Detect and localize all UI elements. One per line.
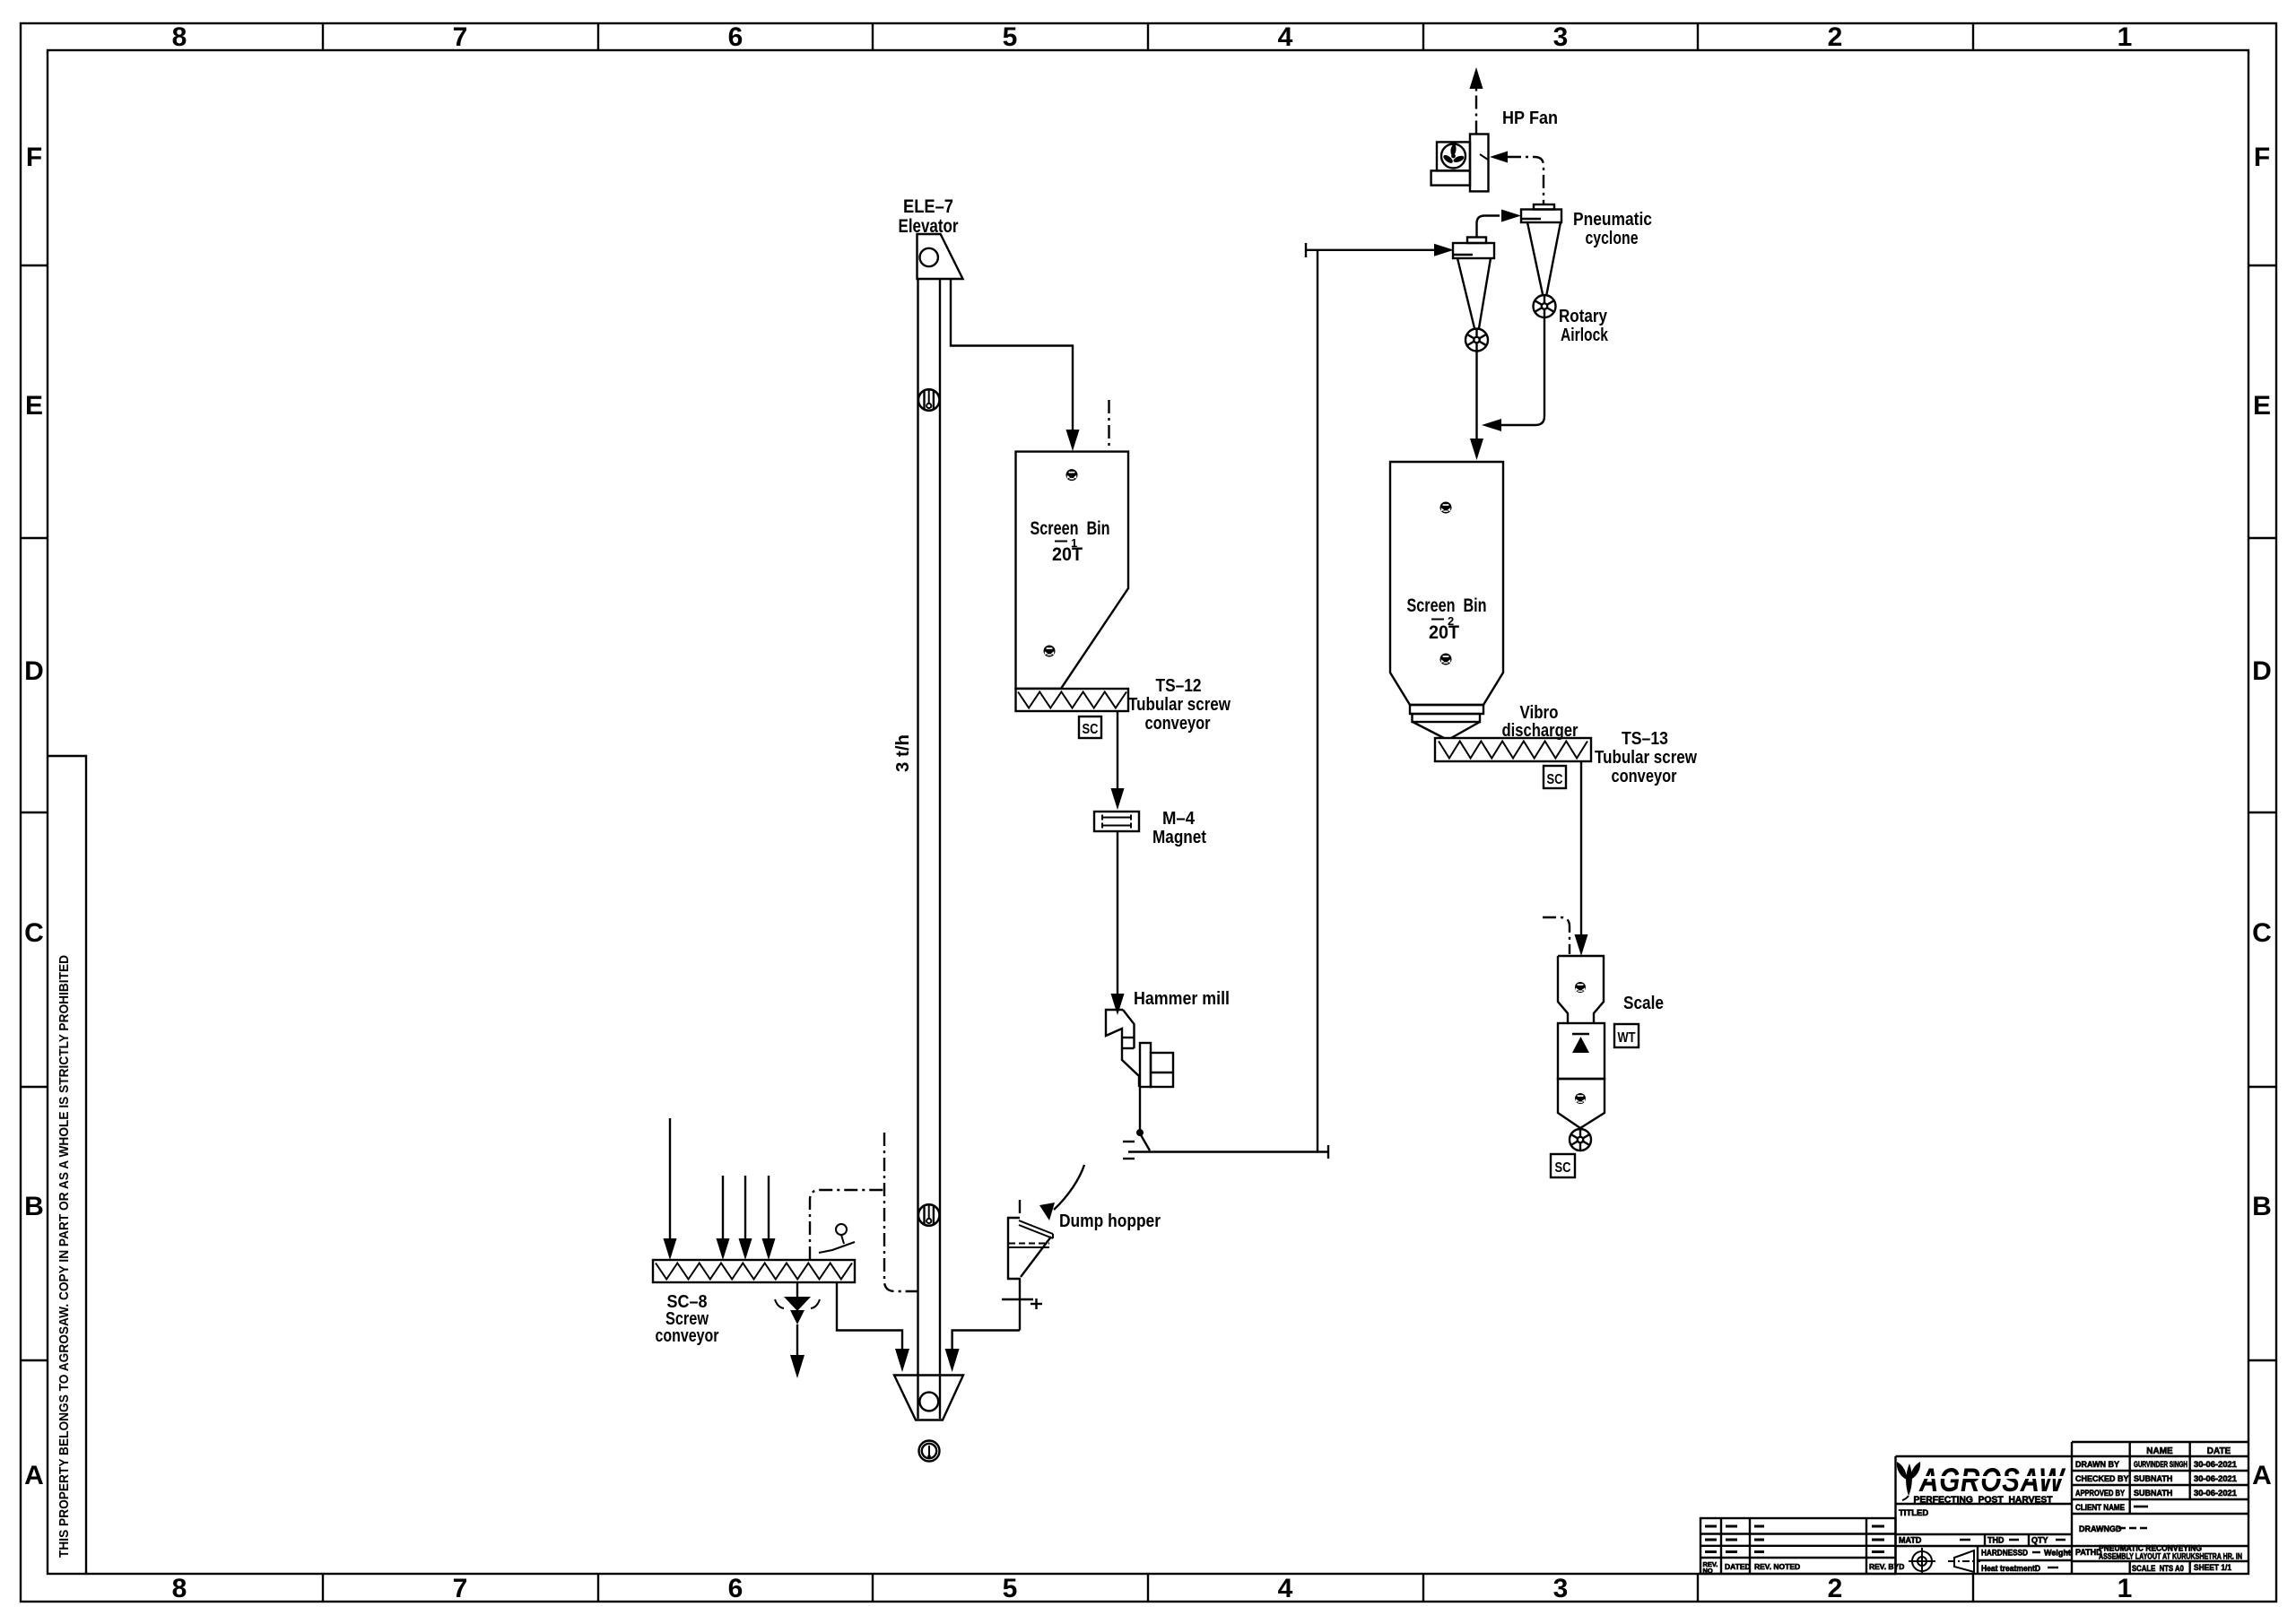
svg-text:QTY: QTY <box>2031 1536 2048 1545</box>
svg-text:3: 3 <box>1553 22 1569 52</box>
svg-text:1: 1 <box>2118 22 2133 52</box>
SC motor box TS-13 <box>1544 766 1566 788</box>
WT box <box>1614 1024 1639 1047</box>
aspiration line SC-8 (dash-dot) <box>810 1190 884 1260</box>
revision table <box>1700 1518 1896 1574</box>
svg-text:2: 2 <box>1448 614 1454 628</box>
wire TS-12 to magnet M-4 <box>1117 711 1118 789</box>
title block main outline <box>1896 1456 2073 1574</box>
aspiration stub bin1 (dash-dot) <box>1108 400 1109 450</box>
AGROSAW logo <box>1897 1462 1920 1500</box>
svg-text:HP Fan: HP Fan <box>1502 109 1558 128</box>
level sensor scale bottom <box>1575 1093 1586 1104</box>
svg-text:CLIENT NAME: CLIENT NAME <box>2075 1503 2125 1512</box>
svg-text:Rotary: Rotary <box>1559 307 1608 326</box>
svg-text:cyclone: cyclone <box>1586 229 1639 248</box>
scale weigh hopper <box>1558 1023 1605 1079</box>
elevator leg right <box>939 279 941 1419</box>
svg-text:SC: SC <box>1547 772 1563 787</box>
dump hopper <box>1008 1218 1021 1279</box>
tubular screw conveyor TS-12 <box>1016 689 1129 711</box>
svg-text:DRAWN BY: DRAWN BY <box>2075 1460 2119 1469</box>
air inlet symbol <box>1123 1141 1135 1142</box>
svg-text:Heat treatmentD: Heat treatmentD <box>1981 1564 2040 1573</box>
hammer mill <box>1106 1010 1139 1087</box>
level sensor bin1 lower <box>1044 646 1056 657</box>
svg-text:SC: SC <box>1083 722 1099 737</box>
svg-text:conveyor: conveyor <box>656 1326 719 1346</box>
wire dump hopper to elevator boot <box>952 1331 1020 1350</box>
svg-text:30-06-2021: 30-06-2021 <box>2194 1460 2237 1469</box>
pneumatic conveying riser <box>1317 250 1318 1152</box>
svg-text:DATED: DATED <box>1725 1562 1751 1571</box>
elevator boot speed sensor <box>919 1441 940 1462</box>
rotary airlock cyclone 2 <box>1534 295 1556 317</box>
property note box <box>48 756 86 1574</box>
svg-text:30-06-2021: 30-06-2021 <box>2194 1489 2237 1498</box>
level switch lever on SC-8 <box>836 1224 847 1235</box>
svg-text:20T: 20T <box>1429 622 1459 643</box>
HP fan <box>1470 135 1489 192</box>
svg-text:THIS PROPERTY BELONGS TO AGROS: THIS PROPERTY BELONGS TO AGROSAW. COPY I… <box>57 955 72 1558</box>
pneumatic cyclone 2 <box>1534 204 1554 210</box>
wire TS-13 discharge to scale <box>1580 761 1582 934</box>
wire cyclone1 product to screen bin 2 <box>1475 352 1477 440</box>
svg-text:SUBNATH: SUBNATH <box>2134 1474 2172 1483</box>
svg-text:AGROSAW: AGROSAW <box>1918 1462 2066 1498</box>
svg-text:D: D <box>2252 656 2272 686</box>
wire cyclone1 outlet to cyclone2 <box>1477 216 1500 238</box>
svg-text:Scale: Scale <box>1623 994 1664 1013</box>
svg-text:4: 4 <box>1278 1574 1293 1603</box>
third angle projection symbol <box>1909 1548 1980 1575</box>
svg-text:Tubular screw: Tubular screw <box>1128 695 1231 715</box>
svg-text:3: 3 <box>1553 1574 1569 1603</box>
wire dump hopper outlet with slide gate <box>1019 1279 1021 1331</box>
svg-text:PERFECTING POST HARVEST: PERFECTING POST HARVEST <box>1914 1496 2053 1506</box>
svg-text:THD: THD <box>1987 1536 2005 1545</box>
svg-text:Elevator: Elevator <box>899 216 959 237</box>
svg-text:2: 2 <box>1828 22 1843 52</box>
svg-text:8: 8 <box>172 22 187 52</box>
svg-text:M–4: M–4 <box>1162 809 1196 829</box>
rotary valve under scale <box>1570 1129 1591 1151</box>
svg-text:3 t/h: 3 t/h <box>893 734 913 772</box>
svg-text:D: D <box>24 656 44 686</box>
svg-text:Screen Bin: Screen Bin <box>1031 518 1110 539</box>
SC motor box scale <box>1551 1154 1575 1177</box>
svg-text:DATE: DATE <box>2207 1446 2231 1456</box>
aspiration line elevator boot (dash-dot) <box>884 1133 918 1291</box>
svg-text:Airlock: Airlock <box>1561 326 1609 345</box>
svg-text:F: F <box>26 143 42 172</box>
svg-text:TS–12: TS–12 <box>1156 676 1202 696</box>
svg-text:E: E <box>25 391 43 421</box>
svg-text:ASSEMBLY LAYOUT AT KURUKSHETRA: ASSEMBLY LAYOUT AT KURUKSHETRA HR. IN <box>2099 1552 2242 1561</box>
svg-text:NO: NO <box>1703 1567 1713 1575</box>
svg-text:6: 6 <box>728 22 744 52</box>
svg-text:B: B <box>2252 1192 2272 1221</box>
svg-text:APPROVED BY: APPROVED BY <box>2075 1489 2125 1498</box>
magnet M-4 <box>1094 812 1139 831</box>
svg-text:6: 6 <box>728 1574 744 1603</box>
svg-text:discharger: discharger <box>1502 721 1578 741</box>
svg-text:conveyor: conveyor <box>1145 714 1211 734</box>
svg-text:B: B <box>24 1192 44 1221</box>
svg-text:SCALE NTS A0: SCALE NTS A0 <box>2132 1564 2184 1573</box>
svg-text:5: 5 <box>1003 22 1018 52</box>
level sensor bin2 upper <box>1440 502 1452 514</box>
svg-text:1: 1 <box>2118 1574 2133 1603</box>
svg-text:Tubular screw: Tubular screw <box>1595 748 1697 768</box>
svg-text:Dump hopper: Dump hopper <box>1059 1211 1161 1231</box>
screen bin 2 (20T) <box>1390 462 1503 705</box>
level sensor bin1 upper <box>1066 469 1078 481</box>
svg-text:F: F <box>2254 143 2270 172</box>
wire SC-8 discharge to elevator boot <box>837 1282 902 1349</box>
elevator leg left <box>917 279 918 1419</box>
approval table <box>2072 1442 2248 1574</box>
elevator belt sensor lower <box>918 1204 940 1226</box>
svg-text:E: E <box>2253 391 2271 421</box>
svg-text:DRAWNGD: DRAWNGD <box>2079 1524 2122 1533</box>
svg-text:7: 7 <box>453 1574 468 1603</box>
wire cyclone2 dust to bin feed <box>1500 317 1544 425</box>
svg-text:CHECKED BY: CHECKED BY <box>2075 1474 2129 1483</box>
elevator boot <box>894 1376 963 1420</box>
level sensor bin2 lower <box>1440 654 1452 665</box>
svg-text:Pneumatic: Pneumatic <box>1573 210 1652 230</box>
scale top hopper <box>1558 956 1604 1023</box>
vibro discharger <box>1435 738 1591 761</box>
pneumatic suction line horizontal <box>1128 1151 1328 1152</box>
svg-text:HARDNESSD: HARDNESSD <box>1981 1549 2028 1558</box>
svg-text:7: 7 <box>453 22 468 52</box>
svg-text:8: 8 <box>172 1574 187 1603</box>
fan exhaust arrow (dash-dot) <box>1475 87 1477 135</box>
svg-text:A: A <box>24 1461 44 1490</box>
svg-text:TS–13: TS–13 <box>1622 729 1668 749</box>
svg-text:A: A <box>2252 1461 2272 1490</box>
svg-text:Screen Bin: Screen Bin <box>1407 595 1487 616</box>
rotary airlock cyclone 1 <box>1465 329 1488 352</box>
dump hopper pointer arrow <box>1054 1165 1084 1210</box>
svg-text:MATD: MATD <box>1899 1536 1922 1545</box>
svg-text:WT: WT <box>1618 1030 1636 1046</box>
level sensor scale top <box>1575 982 1586 993</box>
svg-text:2: 2 <box>1828 1574 1843 1603</box>
svg-text:C: C <box>24 918 44 948</box>
svg-text:NAME: NAME <box>2146 1446 2173 1456</box>
svg-text:Hammer mill: Hammer mill <box>1134 989 1230 1009</box>
svg-text:SUBNATH: SUBNATH <box>2134 1489 2172 1498</box>
svg-text:TITLED: TITLED <box>1899 1508 1928 1518</box>
screen bin 1 (20T) <box>1016 452 1129 689</box>
elevator belt sensor upper <box>918 389 940 411</box>
SC-8 discharge valve <box>796 1282 798 1297</box>
wire cyclone2 outlet to fan (dash-dot) <box>1480 154 1488 160</box>
scale lower hopper <box>1558 1079 1605 1128</box>
svg-text:SC: SC <box>1555 1160 1571 1176</box>
svg-text:REV. NOTED: REV. NOTED <box>1754 1562 1800 1571</box>
svg-text:Magnet: Magnet <box>1152 828 1206 847</box>
SC motor box TS-12 <box>1079 716 1101 738</box>
screw conveyor SC-8 <box>653 1260 855 1282</box>
svg-text:C: C <box>2252 918 2272 948</box>
svg-text:REV. BYD: REV. BYD <box>1869 1562 1904 1571</box>
svg-text:20T: 20T <box>1052 544 1083 565</box>
svg-text:1: 1 <box>1071 536 1077 550</box>
wire feed arrows into SC-8 <box>669 1118 671 1242</box>
svg-text:4: 4 <box>1278 22 1293 52</box>
svg-text:Vibro: Vibro <box>1520 703 1559 723</box>
wire hammer mill outlet to suction line <box>1139 1087 1141 1132</box>
svg-text:SHEET 1/1: SHEET 1/1 <box>2194 1563 2231 1572</box>
cyclone 1 <box>1467 238 1486 244</box>
wire magnet to hammer mill <box>1117 831 1118 994</box>
svg-text:5: 5 <box>1003 1574 1018 1603</box>
svg-text:ELE–7: ELE–7 <box>903 196 953 217</box>
pneumatic line to cyclone 1 <box>1305 243 1307 257</box>
wire elevator head spout to screen bin 1 <box>951 279 1073 447</box>
svg-text:GURVINDER SINGH: GURVINDER SINGH <box>2134 1460 2187 1469</box>
elevator ELE-7 head <box>918 234 963 279</box>
wire SC-8 waste down arrow <box>796 1324 798 1356</box>
svg-text:30-06-2021: 30-06-2021 <box>2194 1474 2237 1483</box>
aspiration stub scale (dash-dot) <box>1543 917 1570 954</box>
svg-text:conveyor: conveyor <box>1612 767 1677 786</box>
